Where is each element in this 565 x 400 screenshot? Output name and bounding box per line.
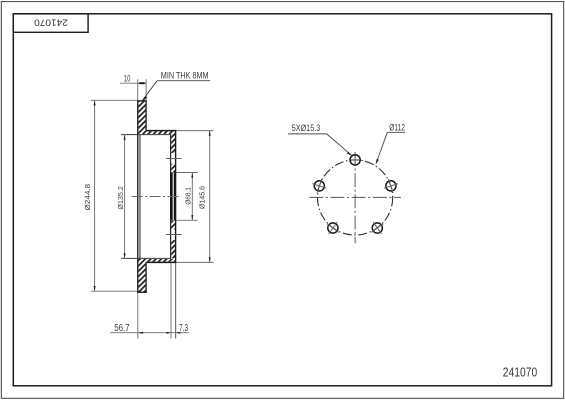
hole ll ticks [329,222,338,234]
section centerline [132,196,181,198]
barrel left face [170,134,172,259]
arrow blob dim10 [138,82,146,84]
arrow 244.8 top [94,100,96,105]
arrow 145.6 top [209,131,211,136]
dim 10 ext left [137,79,139,100]
hole upper-left [314,181,324,191]
flange top edge [146,130,176,132]
title box top-left [13,14,88,33]
arrow 56.7 left [138,332,143,334]
svg-text:Ø112: Ø112 [389,122,405,132]
svg-text:Ø135.2: Ø135.2 [116,186,125,209]
leader 112 arrow [376,159,379,164]
arrow 7.3 [176,332,181,334]
bolt hole tick lower [166,234,182,236]
disc top edge [137,100,147,102]
disc right face upper [145,100,147,131]
bottom flange bottom edge [146,261,176,263]
hole ul ticks [312,184,326,189]
hole upper-right [386,181,396,191]
dim 244.8 ext top [91,99,138,101]
hole lower-right [372,223,382,233]
dim 10 ext right [145,79,147,100]
disc bottom edge [137,291,147,293]
hole ur ticks [384,184,398,189]
dim bottom line [110,332,189,334]
hatch flange top [146,131,176,134]
hole lr ticks [373,222,382,234]
bore thick band left [170,172,173,220]
arrow 68.1 bottom [191,215,193,220]
svg-text:Ø68.1: Ø68.1 [183,187,192,205]
hatch barrel upper a [171,134,175,153]
dim 68.1 line [191,173,193,221]
dim 7.3 ext right [175,263,177,339]
leader 112 diagonal [376,132,387,162]
arrow MIN THK leader [142,96,147,102]
dim 135.2 line [124,135,126,259]
dim 145.6 line [209,131,211,263]
bolt circle dashed [318,160,393,235]
hatch disc strip top [138,101,145,134]
dim 56.7 ext mid [170,263,172,339]
svg-text:241070: 241070 [34,18,68,28]
dim 244.8 ext bottom [91,290,138,292]
svg-text:5XØ15.3: 5XØ15.3 [292,123,321,134]
arrow 68.1 top [191,173,193,178]
svg-text:241070: 241070 [503,366,537,380]
svg-text:56.7: 56.7 [114,323,130,334]
arrow 244.8 bottom [94,286,96,291]
hole top [350,155,360,165]
disc inner thin line [139,135,141,258]
flange bottom edge + ext [121,134,171,136]
hatch disc strip bottom [138,259,145,292]
disc right face lower [145,262,147,292]
leader MIN THK underline [157,80,210,82]
svg-text:7.3: 7.3 [179,323,188,334]
leader 5X15.3 diagonal [327,134,352,155]
hatch barrel lower b [171,240,175,258]
arrow 135.2 bottom [124,253,126,258]
hole top tick [351,159,360,161]
svg-text:Ø145.6: Ø145.6 [197,186,206,209]
dim 10 line [120,82,147,84]
svg-text:10: 10 [124,73,130,84]
bolt hole tick upper [166,158,182,160]
leader 5X15.3 arrow [347,152,352,156]
bottom flange top edge + ext [121,257,171,259]
svg-text:Ø244.8: Ø244.8 [83,184,92,211]
hatch flange bottom [146,259,176,262]
dim 56.7 ext left [137,293,139,339]
dim 244.8 line [94,100,96,291]
dim 145.6 ext top [176,130,213,132]
horizontal centerline [309,196,401,198]
dim 68.1 ext top [176,172,198,174]
leader 5X15.3 underline [288,133,327,135]
arrow 135.2 top [124,135,126,140]
leader 112 underline [387,131,405,133]
hatch barrel lower a [171,221,175,230]
hole lower-left [328,223,338,233]
arrow 56.7 right [166,332,171,334]
arrows (filled) [94,82,211,334]
vertical centerline [354,152,356,243]
disc left face [137,100,139,292]
dim 145.6 ext bottom [176,261,213,263]
hatch barrel upper b [171,164,175,173]
barrel right face [175,131,177,263]
dim 68.1 ext bottom [176,219,198,221]
texts left view [83,71,209,334]
arrow 145.6 bottom [209,257,211,262]
bore thick band right [174,172,176,220]
leader MIN THK diagonal [143,81,158,101]
svg-text:MIN THK 8MM: MIN THK 8MM [161,71,209,82]
